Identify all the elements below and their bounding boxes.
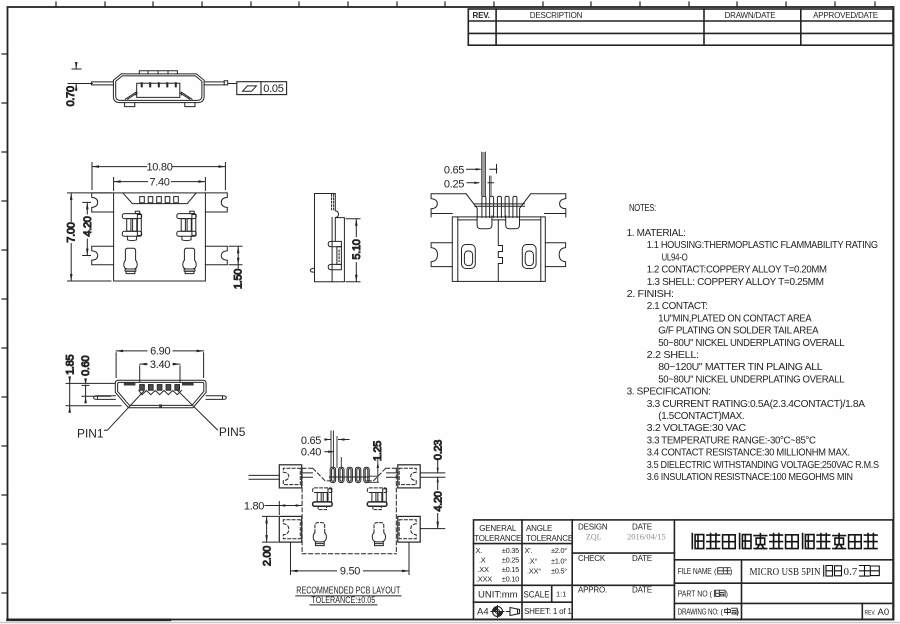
svg-text:1.25: 1.25: [372, 441, 384, 461]
side outline: [315, 194, 345, 282]
svg-text:3.6 INSULATION RESISTNACE:10: 3.6 INSULATION RESISTNACE:100 MEGOHMS MI…: [647, 472, 853, 483]
caption: RECOMMENDED PCB LAYOUT: [296, 584, 401, 606]
A4 projection symbols: [491, 606, 520, 618]
top notches: [124, 382, 136, 385]
svg-text:DATE: DATE: [632, 523, 652, 532]
5 solder tails: [482, 196, 486, 217]
svg-text:): ): [726, 590, 729, 599]
dimension 0.65 (view D): [444, 164, 497, 176]
svg-text:4.20: 4.20: [433, 491, 445, 511]
dimension 0.70: [65, 62, 93, 106]
body outline: [114, 193, 206, 281]
view A: shell front elevation: [91, 71, 236, 107]
svg-text:3.3 CURRENT RATING:0.5A(2.3.: 3.3 CURRENT RATING:0.5A(2.3.4CONTACT)/1.…: [647, 399, 865, 410]
svg-text:±0.5°: ±0.5°: [551, 567, 567, 576]
center seam: [498, 220, 502, 282]
svg-text:PART NO: PART NO: [678, 589, 708, 599]
dimension 0.25 (view D): [444, 178, 494, 190]
5 terminal pins: [140, 197, 145, 203]
svg-text:±0.10: ±0.10: [502, 575, 519, 584]
fold edge line: [458, 204, 541, 220]
pad inner dashed wings: [283, 468, 300, 484]
body outline: [452, 217, 545, 282]
svg-text:(: (: [714, 567, 717, 576]
svg-text:1.85: 1.85: [64, 355, 76, 375]
svg-text:2016/04/15: 2016/04/15: [627, 532, 666, 542]
leader PIN1: [105, 391, 144, 430]
bottom legs: [125, 103, 195, 107]
top plate tab: [139, 71, 177, 74]
file name value: [750, 566, 858, 578]
svg-text:ANGLE: ANGLE: [526, 524, 552, 533]
wing end tab: [224, 81, 237, 85]
mating notch trapezoid: [123, 193, 196, 204]
svg-text:UNIT:mm: UNIT:mm: [478, 590, 518, 601]
svg-text:1.2 CONTACT:COPPERY ALLOY T: 1.2 CONTACT:COPPERY ALLOY T=0.20MM: [647, 265, 827, 276]
svg-text:SHEET: 1 of 1: SHEET: 1 of 1: [524, 607, 572, 616]
dashed footprint outline: [302, 468, 396, 553]
svg-text:A4: A4: [477, 607, 489, 618]
svg-text:DRAWN/DATE: DRAWN/DATE: [725, 11, 776, 20]
svg-text:0.65: 0.65: [301, 435, 321, 447]
lower contacts: [124, 248, 137, 269]
dimension 4.20: [82, 202, 94, 255]
svg-text:APPRO.: APPRO.: [578, 586, 607, 595]
knurl hatch: [333, 195, 335, 211]
dimension 7.00: [66, 193, 111, 281]
dimension 1.25 (PCB): [329, 441, 384, 483]
revision table header text: [473, 11, 878, 20]
svg-text:0.25: 0.25: [444, 178, 464, 190]
dimension 0.23 (PCB): [432, 440, 444, 490]
svg-text:MICRO USB 5PIN: MICRO USB 5PIN: [750, 566, 821, 578]
title block texts left: [474, 523, 666, 618]
mid-right wing: [545, 243, 565, 267]
svg-text:FILE NAME: FILE NAME: [678, 567, 712, 576]
diagonal braces: [125, 92, 192, 99]
inner latches dashed: [313, 488, 333, 493]
svg-text:TOLERANCE:±0.05: TOLERANCE:±0.05: [311, 595, 375, 606]
svg-text:.X: .X: [479, 556, 486, 565]
dimension 0.60: [80, 356, 110, 404]
svg-text:7.00: 7.00: [66, 222, 78, 242]
dimension 9.50 (PCB): [291, 542, 410, 578]
svg-text:6.90: 6.90: [150, 346, 170, 358]
svg-text:0.65: 0.65: [444, 164, 464, 176]
svg-text:TOLERANCE: TOLERANCE: [526, 534, 573, 543]
solder wings: [92, 193, 114, 212]
view F: recommended PCB layout: [249, 431, 445, 554]
svg-text:REV.: REV.: [865, 610, 876, 617]
title block lower-right : grid: [474, 520, 894, 620]
lower oval pads: [315, 523, 325, 533]
solid stubs: [249, 473, 445, 479]
svg-text:2.2 SHELL:: 2.2 SHELL:: [647, 350, 699, 361]
dimension 2.00 (PCB): [261, 516, 278, 566]
dimension 0.40 (PCB): [301, 447, 334, 459]
dimension 5.10: [346, 219, 363, 282]
svg-text:5.10: 5.10: [351, 239, 363, 259]
notes text block: [627, 203, 880, 483]
svg-text:.XX: .XX: [478, 565, 489, 574]
svg-text:2. FINISH:: 2. FINISH:: [627, 289, 674, 300]
left board tab: [94, 396, 116, 400]
paper scan edge: [0, 622, 900, 624]
frame tick marks top: [56, 2, 875, 7]
svg-text:DATE: DATE: [632, 554, 652, 563]
svg-text:7.40: 7.40: [149, 176, 169, 188]
svg-text:±0.35: ±0.35: [502, 546, 519, 555]
svg-text:4.20: 4.20: [82, 216, 94, 236]
svg-text:UL94-O: UL94-O: [662, 252, 688, 263]
dimension 0.65 (PCB): [301, 435, 349, 447]
dimension 4.20 (PCB): [420, 491, 445, 528]
svg-text:0.70: 0.70: [65, 86, 77, 106]
title block texts right: [678, 567, 890, 618]
svg-text:1.3 SHELL: COPPERY ALLOY: 1.3 SHELL: COPPERY ALLOY T=0.25MM: [647, 277, 824, 288]
svg-text:3. SPECIFICATION:: 3. SPECIFICATION:: [627, 387, 711, 398]
dimension 3.40: [140, 359, 180, 382]
svg-text:): ): [730, 567, 733, 576]
svg-text:50~80U" NICKEL UNDERPLATING: 50~80U" NICKEL UNDERPLATING OVERALL: [658, 374, 845, 385]
5 slot pads: [330, 467, 335, 482]
svg-text:0.60: 0.60: [80, 356, 92, 376]
company name (CJK drawn strokes): [692, 534, 877, 549]
svg-text:DRAWING NO:: DRAWING NO:: [678, 608, 719, 617]
pad edge extension hairlines: [331, 431, 341, 467]
U slots: [477, 216, 492, 229]
svg-text:±1.0°: ±1.0°: [551, 557, 567, 566]
svg-text:G/F PLATING ON SOLDER TAIL: G/F PLATING ON SOLDER TAIL AREA: [658, 326, 818, 337]
svg-text:NOTES:: NOTES:: [629, 203, 656, 214]
tongue serration: [139, 390, 182, 394]
svg-text:2.00: 2.00: [261, 546, 273, 566]
shell inner outline: [116, 76, 202, 101]
svg-text:9.50: 9.50: [340, 566, 360, 578]
svg-text:.XXX: .XXX: [476, 575, 492, 584]
svg-text:PIN1: PIN1: [77, 426, 104, 440]
svg-text:.X°: .X°: [528, 557, 537, 566]
view C: side view: [310, 194, 344, 282]
svg-text:80~120U" MATTER TIN PLAING: 80~120U" MATTER TIN PLAING ALL: [658, 362, 823, 373]
svg-text:DESCRIPTION: DESCRIPTION: [530, 11, 583, 20]
dimension 10.80: [92, 161, 225, 189]
svg-text:10.80: 10.80: [146, 161, 172, 173]
dimension 6.90: [116, 346, 204, 378]
svg-text:A0: A0: [878, 607, 890, 618]
frame tick marks bottom: [8, 618, 171, 621]
side wing tails: [91, 82, 224, 85]
svg-text:±0.25: ±0.25: [502, 556, 519, 565]
dimension 1.50: [229, 246, 245, 289]
svg-text:0.7: 0.7: [844, 566, 858, 578]
middle clip: [328, 241, 341, 246]
inner latches: [122, 214, 141, 219]
dimension 1.80 (PCB): [244, 500, 302, 514]
face outer outline: [115, 380, 206, 408]
svg-text:0.05: 0.05: [263, 83, 283, 95]
svg-text:1:1: 1:1: [556, 590, 566, 599]
right board tab: [206, 396, 226, 400]
svg-text:±0.15: ±0.15: [502, 565, 519, 574]
svg-text:1U"MIN,PLATED ON CONTACT AR: 1U"MIN,PLATED ON CONTACT AREA: [658, 313, 811, 324]
corner pads: [279, 465, 301, 488]
top-right wing: [520, 194, 566, 217]
frame tick marks left: [2, 54, 8, 593]
svg-text:X.: X.: [476, 546, 483, 555]
svg-text:APPROVED/DATE: APPROVED/DATE: [813, 11, 878, 20]
inner cavity: [137, 83, 180, 97]
5 contacts: [140, 385, 145, 391]
revision table top-right: [468, 9, 893, 45]
view D: bottom view: [431, 152, 566, 281]
svg-text:TOLERANCE: TOLERANCE: [474, 534, 521, 543]
top-left wing: [431, 194, 477, 217]
leader PIN5: [177, 390, 218, 430]
svg-text:3.2 VOLTAGE:30 VAC: 3.2 VOLTAGE:30 VAC: [647, 423, 747, 434]
svg-text:50~80U" NICKEL UNDERPLATING: 50~80U" NICKEL UNDERPLATING OVERALL: [658, 338, 845, 349]
svg-text:3.5 DIELECTRIC WITHSTANDING: 3.5 DIELECTRIC WITHSTANDING VOLTAGE;250V…: [647, 460, 879, 471]
svg-text:REV.: REV.: [473, 11, 490, 20]
svg-text:SCALE: SCALE: [524, 590, 550, 600]
svg-text:0.40: 0.40: [301, 447, 321, 459]
face inner outline: [118, 382, 204, 405]
svg-text:CHECK: CHECK: [578, 554, 606, 563]
dimension 1.85: [64, 355, 121, 413]
svg-text:GENERAL: GENERAL: [479, 524, 517, 533]
bottom center key: [159, 404, 162, 407]
svg-text:±2.0°: ±2.0°: [551, 546, 567, 555]
view E: front face view: [77, 380, 246, 440]
cavity contact ticks: [142, 83, 176, 86]
svg-text:1. MATERIAL:: 1. MATERIAL:: [627, 228, 686, 239]
bottom beak: [310, 268, 314, 272]
svg-text:3.3 TEMPERATURE RANGE:-30°C~: 3.3 TEMPERATURE RANGE:-30°C~85°C: [647, 435, 817, 446]
svg-text:(: (: [710, 590, 713, 599]
svg-text:PIN5: PIN5: [219, 425, 246, 439]
svg-text:3.4 CONTACT RESISTANCE:30 M: 3.4 CONTACT RESISTANCE:30 MILLIONHM MAX.: [647, 448, 850, 459]
svg-text:.XX°: .XX°: [527, 567, 541, 576]
mid-left wing: [431, 243, 452, 267]
svg-text:3.40: 3.40: [150, 359, 170, 371]
inner seam line: [332, 218, 335, 282]
right hole: [522, 245, 536, 269]
svg-text:(: (: [721, 608, 724, 617]
view B: top view: [92, 193, 228, 281]
svg-text:ZQL: ZQL: [586, 533, 602, 542]
svg-text:DESIGN: DESIGN: [578, 523, 608, 532]
left hole: [462, 245, 476, 269]
dimension 7.40: [114, 176, 206, 190]
svg-text:1.80: 1.80: [244, 500, 264, 512]
svg-text:DATE: DATE: [632, 586, 652, 595]
svg-text:1.50: 1.50: [233, 269, 245, 289]
shell outer outline: [113, 74, 204, 103]
svg-text:X'.: X'.: [525, 546, 533, 555]
svg-text:1.1 HOUSING:THERMOPLASTIC FL: 1.1 HOUSING:THERMOPLASTIC FLAMMABILITY R…: [647, 240, 878, 251]
tail extension (pin1 gray): [482, 152, 485, 196]
svg-text:0.23: 0.23: [432, 440, 444, 460]
flatness callout 0.05: [237, 82, 287, 95]
svg-text:(1.5CONTACT)MAX.: (1.5CONTACT)MAX.: [658, 411, 744, 422]
svg-text:2.1 CONTACT:: 2.1 CONTACT:: [647, 301, 708, 312]
